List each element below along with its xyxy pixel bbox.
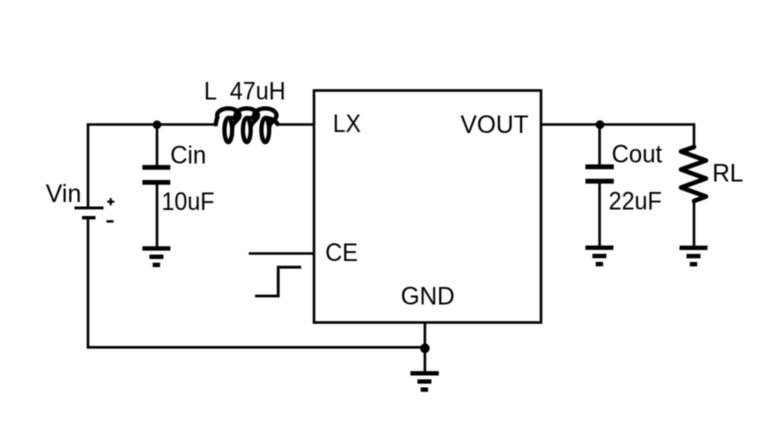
label Cout: [612, 140, 663, 168]
svg-text:L 47uH: L 47uH: [204, 78, 286, 106]
wire: battery positive to top rail: [87, 125, 90, 207]
wire: bottom rail: [87, 346, 425, 349]
ground: GND pin: [410, 373, 438, 389]
label Cin: [170, 142, 206, 170]
resistor RL zigzag: [681, 147, 706, 201]
svg-text:LX: LX: [333, 110, 361, 138]
IC U1 body: [314, 91, 541, 323]
battery plus sign: [107, 198, 114, 205]
svg-text:CE: CE: [325, 239, 358, 267]
label 10uF: [162, 188, 215, 216]
svg-text:Cout: Cout: [612, 140, 663, 168]
wire: resistor RL to ground: [693, 201, 696, 246]
pin label CE: [325, 239, 358, 267]
wire: battery negative down to bottom rail: [87, 219, 90, 347]
svg-text:Cin: Cin: [170, 142, 206, 170]
pin label VOUT: [461, 111, 529, 139]
capacitor Cin wire lower: [156, 185, 159, 247]
battery minus sign: [107, 220, 114, 222]
pin label LX: [333, 110, 361, 138]
capacitor Cout wire lower: [598, 184, 601, 247]
wire: GND pin to ground: [424, 323, 427, 372]
CE input step waveform: [255, 267, 301, 296]
node: junction VOUT/Cout: [596, 120, 605, 129]
wire: output node down to resistor RL: [693, 123, 696, 147]
wire: top rail from battery to inductor: [87, 123, 216, 126]
svg-text:10uF: 10uF: [162, 188, 215, 216]
capacitor Cout plates: [585, 167, 613, 181]
svg-text:Vin: Vin: [46, 180, 82, 208]
node: junction Vin/Cin: [153, 120, 162, 129]
label 22uF: [609, 187, 662, 215]
label Vin: [46, 180, 82, 208]
wire: inductor to LX pin: [278, 123, 314, 126]
ground: Cin: [142, 248, 170, 265]
pin label GND: [401, 282, 455, 310]
ground: Cout: [585, 248, 613, 264]
node: junction GND/bottom rail: [420, 344, 430, 354]
capacitor Cin plates: [142, 167, 170, 182]
svg-text:RL: RL: [712, 160, 743, 188]
ground: RL: [680, 248, 708, 264]
wire: VOUT to output node and RL: [541, 123, 694, 126]
inductor L1 coil: [216, 108, 278, 142]
svg-text:GND: GND: [401, 282, 455, 310]
svg-text:VOUT: VOUT: [461, 111, 529, 139]
label RL: [712, 160, 743, 188]
voltage source Vin battery plates: [75, 208, 104, 218]
wire: CE pin stub: [249, 252, 314, 255]
capacitor Cin wire upper: [156, 125, 159, 166]
capacitor Cout wire upper: [598, 125, 601, 165]
svg-text:22uF: 22uF: [609, 187, 662, 215]
label L 47uH: [204, 78, 286, 106]
